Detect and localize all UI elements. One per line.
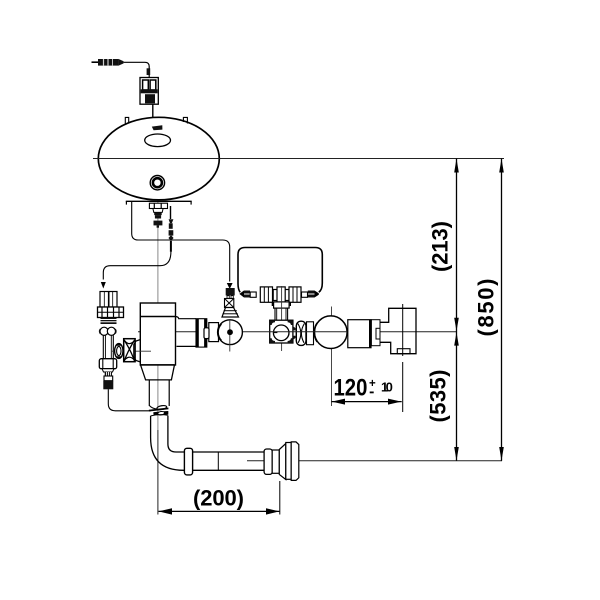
svg-text:(535): (535)	[426, 370, 451, 423]
svg-text:(200): (200)	[193, 486, 244, 511]
valve outlet arm	[176, 317, 197, 347]
solenoid valve circle	[218, 319, 243, 352]
coupling arc on trap left	[314, 323, 317, 342]
valve bottom taper	[141, 365, 175, 380]
stub to trap	[307, 322, 314, 345]
ribbed connector	[105, 372, 112, 376]
trap body circle	[315, 316, 348, 349]
sensor window	[145, 134, 171, 147]
threaded section	[101, 318, 117, 325]
label 120 +/- 10	[334, 374, 393, 401]
centerline vertical main axis	[157, 120, 159, 430]
wire from plug to controller	[124, 62, 150, 77]
check valve / stop assembly (left column)	[98, 292, 124, 390]
outlet body right of trap	[348, 320, 380, 348]
dimension line (200)	[159, 508, 280, 514]
solenoid bonnet	[196, 319, 219, 347]
big nut	[98, 307, 124, 318]
wall bracket	[380, 308, 416, 353]
sensor centerline horizontal (top extension line)	[93, 158, 504, 160]
wire from spare cable to check valve	[103, 252, 171, 280]
solenoid connector / fittings above	[222, 288, 239, 317]
wire ferrule	[147, 68, 151, 75]
wire arrowhead into check valve	[101, 282, 106, 289]
ball joint	[100, 327, 108, 335]
hex	[104, 376, 113, 381]
tee body	[273, 287, 289, 304]
drain pipe flange ring	[184, 448, 192, 475]
centerline through tee drop	[281, 286, 283, 351]
svg-text:120: 120	[334, 374, 368, 401]
svg-text:10: 10	[381, 380, 393, 395]
vacuum breaker pipe loop	[238, 248, 322, 293]
supply pipe fitting row: left compression fitting	[239, 291, 256, 298]
wall spud fittings	[264, 442, 299, 481]
plug	[103, 381, 113, 390]
coupling wedges	[293, 326, 296, 339]
dimension line 213/535 (x=456)	[454, 159, 459, 461]
lower nut	[99, 359, 116, 369]
drain centerline	[247, 460, 502, 462]
spare cable with connector (right)	[168, 206, 173, 252]
wire arrowhead into solenoid	[227, 283, 233, 289]
hex nut right	[289, 287, 301, 302]
hex fitting under sensor	[149, 203, 167, 208]
mounting tab left	[125, 117, 128, 124]
valve inlet boss	[134, 340, 141, 363]
upper cylinder	[100, 292, 117, 308]
right compression fitting	[302, 291, 319, 298]
mounting tab right	[183, 117, 187, 123]
svg-text:+: +	[369, 378, 376, 390]
controller box U1	[140, 78, 158, 105]
drop pipe below tee	[275, 308, 288, 320]
sensor cable connector stack	[153, 209, 163, 228]
centerline through trap circle	[331, 307, 333, 407]
drain elbow and horizontal pipe	[151, 416, 265, 471]
pipe	[102, 335, 104, 358]
union coupling (pill)	[296, 321, 306, 345]
bracket centerline	[402, 304, 404, 412]
main horizontal centerline	[138, 331, 456, 333]
slip joint	[149, 405, 169, 416]
push button	[150, 176, 164, 190]
hex nut left	[260, 287, 272, 302]
dimension 120 line	[331, 399, 401, 405]
power plug P1	[92, 59, 124, 66]
flush valve body	[140, 303, 175, 365]
tee drop collar	[272, 302, 290, 308]
cable from controller to sensor head	[152, 104, 154, 119]
wire from check valve to drain pipe	[108, 389, 150, 411]
sensor head cover (ellipse)	[98, 117, 219, 200]
dimension line 850 (x=502)	[499, 159, 504, 461]
taper	[102, 369, 114, 372]
control stop valve (cross symbol)	[112, 339, 151, 362]
dimension 200 extension right	[279, 481, 281, 515]
wire sensor to solenoid connector	[132, 201, 230, 281]
spout mark	[152, 125, 163, 130]
svg-text:(213): (213)	[428, 221, 453, 272]
tailpipe	[149, 380, 169, 406]
sensor base bracket	[126, 201, 192, 204]
diaphragm unit body	[270, 320, 293, 343]
